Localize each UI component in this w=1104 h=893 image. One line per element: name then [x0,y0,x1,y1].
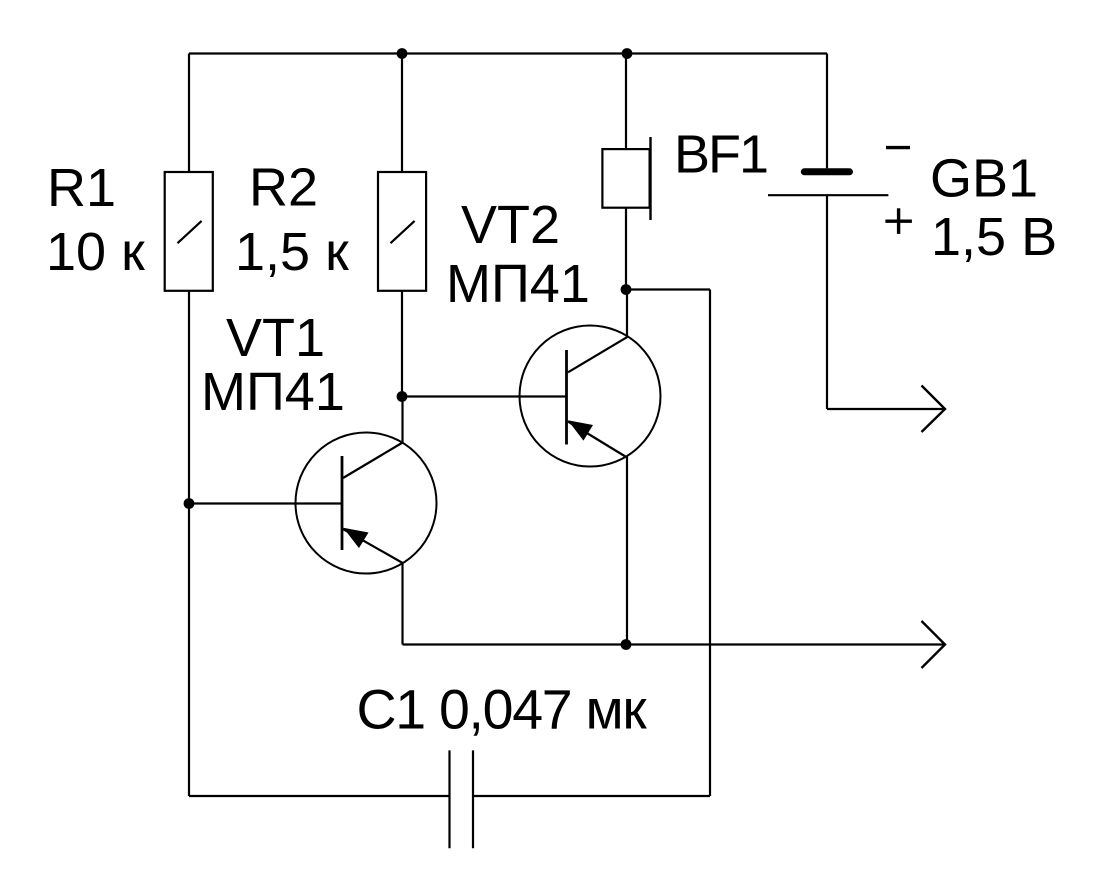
capacitor C1 [450,750,474,848]
wire right vertical down [709,290,711,797]
resistor R2 [378,172,426,291]
wire VT2 emitter down [626,457,628,645]
wire VT1 emitter down [401,563,403,645]
wire R2 top lead [401,54,403,173]
wire BF1 top lead [625,54,627,150]
wire battery top lead [826,54,828,169]
node BF1 VT2 collector [621,284,632,295]
svg-text:МП41: МП41 [446,254,590,314]
svg-text:10 к: 10 к [46,222,145,282]
transistor VT2 [520,326,661,467]
wire VT2 base [402,395,566,397]
wire bottom left [189,795,450,797]
transistor VT1 [296,433,437,574]
svg-text:VT1: VT1 [226,308,325,368]
label VT1 МП41 [201,308,345,422]
wire BF1 bottom lead [625,208,627,290]
wire top rail [189,52,827,54]
svg-text:C1 0,047 мк: C1 0,047 мк [357,679,648,741]
node top BF1 [622,48,633,59]
wire R2 bottom lead [401,291,403,397]
node VT1 base left rail [184,498,195,509]
minus sign [886,146,910,149]
arrow battery output [922,386,946,433]
plus sign [885,208,912,234]
wire VT1 collector up [401,397,403,444]
node VT2 emitter output [621,639,632,650]
wire battery bottom lead [826,196,828,409]
label BF1 [674,125,767,185]
label R2 1,5 к [235,158,349,283]
wire node to right vertical [626,288,710,290]
battery GB1 [768,172,888,195]
wire R1 top lead [188,54,190,173]
wire R1 bottom / left rail [188,291,190,796]
svg-text:1,5 В: 1,5 В [931,207,1057,267]
node R2 VT1 collector VT2 base [397,391,408,402]
svg-text:VT2: VT2 [461,195,560,255]
wire battery output [827,408,945,410]
svg-text:МП41: МП41 [201,362,345,422]
label VT2 МП41 [446,195,590,314]
label GB1 1,5 В [930,149,1057,268]
label R1 10 к [46,158,145,282]
wire VT1 base [189,502,341,504]
wire emitter output line [403,643,946,645]
buzzer BF1 [602,137,650,220]
svg-text:GB1: GB1 [930,149,1038,209]
wire VT2 collector up [626,290,628,338]
arrow emitter output [922,621,946,668]
node top R2 [397,48,408,59]
label C1 0,047 мк [357,679,648,741]
resistor R1 [165,172,213,291]
svg-text:1,5 к: 1,5 к [235,222,349,282]
svg-text:BF1: BF1 [674,125,767,185]
wire bottom right [473,795,710,797]
svg-text:R1: R1 [47,158,116,218]
svg-text:R2: R2 [249,158,318,218]
